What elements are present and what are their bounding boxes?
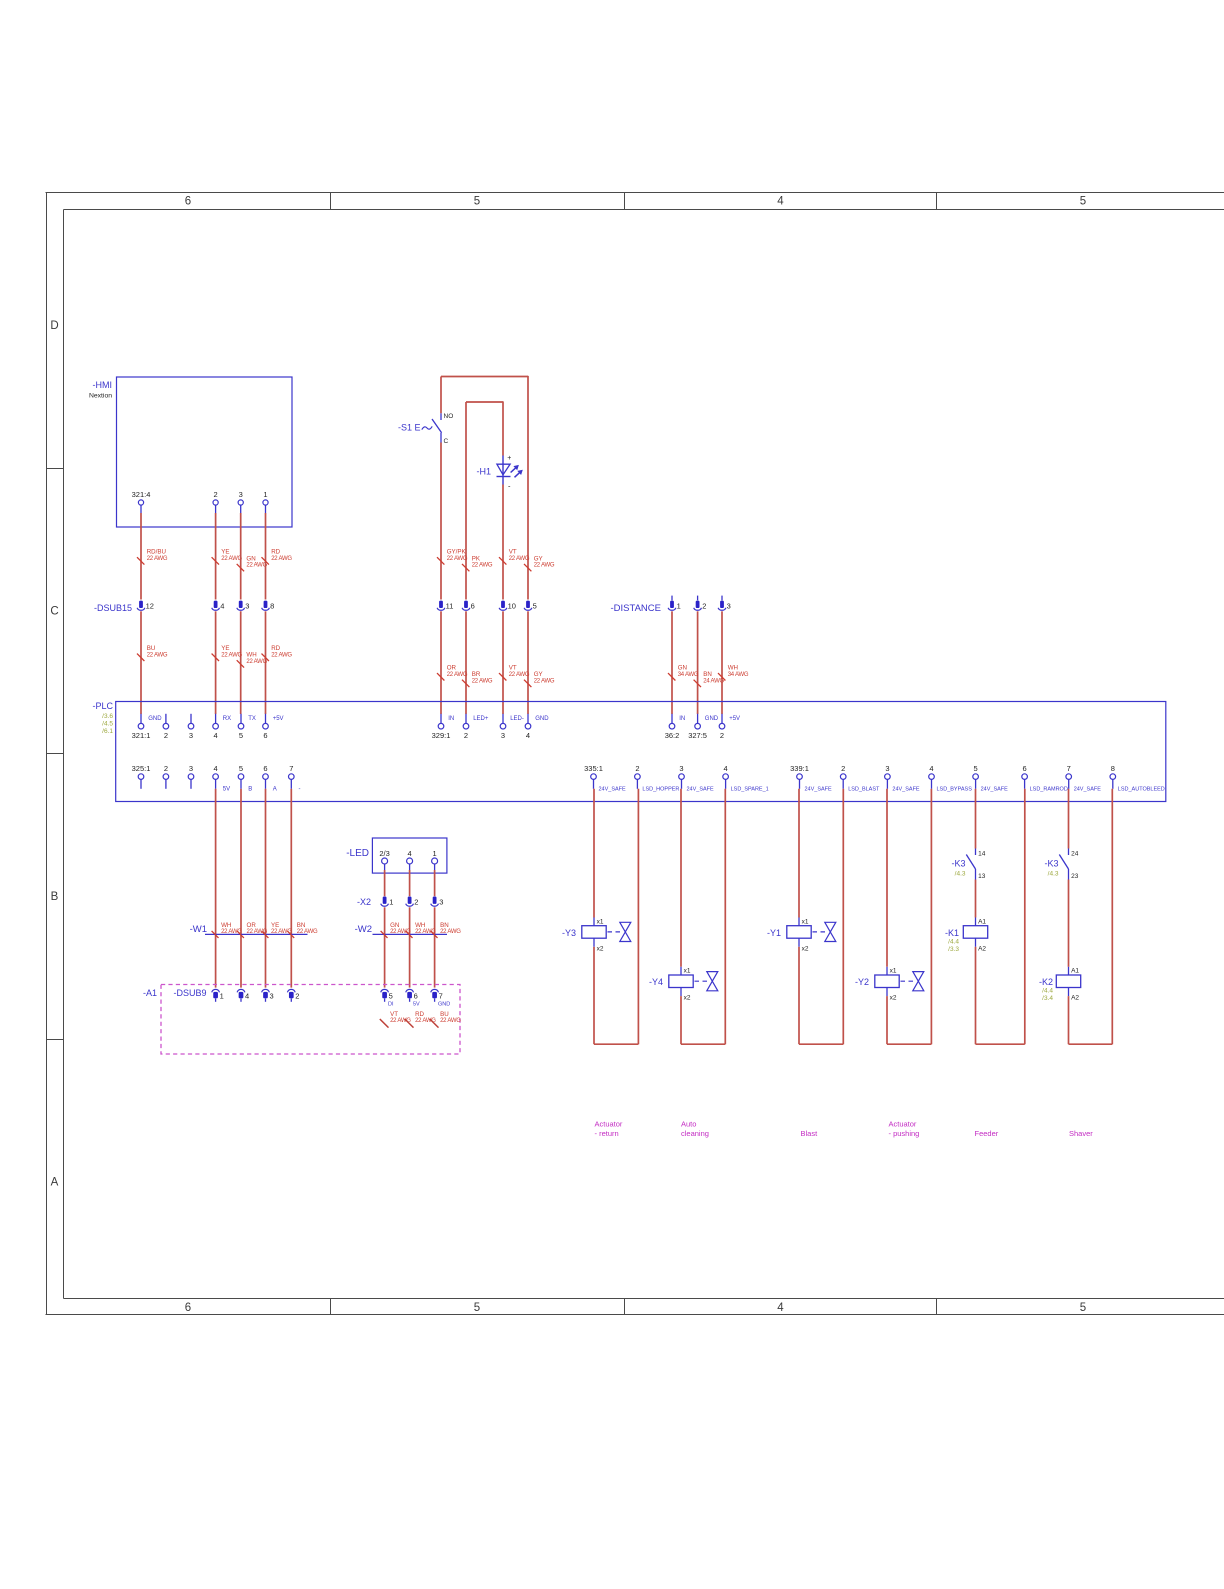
- svg-text:B: B: [51, 891, 59, 903]
- svg-text:10: 10: [508, 602, 516, 611]
- wire label GY/PK 22 AWG: [437, 557, 444, 564]
- solenoid coil -Y4: [669, 975, 693, 988]
- wire HMI to DSUB15 at x=240.7: [240, 513, 242, 600]
- wire K1 to loop bottom: [975, 947, 977, 1044]
- svg-text:4: 4: [408, 849, 412, 858]
- wire DSUB to PLC at x=697.6: [697, 611, 699, 714]
- svg-text:LSD_BLAST: LSD_BLAST: [848, 786, 880, 792]
- svg-text:GY/PK: GY/PK: [447, 549, 467, 556]
- wire-end label RD 22 AWG: [405, 1019, 414, 1028]
- svg-text:-PLC: -PLC: [92, 701, 113, 711]
- wire loop 5 bottom: [976, 1043, 1025, 1045]
- svg-text:6: 6: [414, 992, 418, 1001]
- PLC input terminal 327:5: [697, 714, 699, 724]
- DSUB15 pin 6: [464, 601, 468, 608]
- svg-text:Actuator: Actuator: [889, 1120, 917, 1129]
- svg-text:3: 3: [245, 602, 249, 611]
- drawing frame border (outer): [46, 192, 1224, 194]
- wire HMI to DSUB15 at x=141: [140, 513, 142, 600]
- svg-text:3: 3: [189, 731, 193, 740]
- svg-text:23: 23: [1071, 873, 1079, 880]
- svg-text:A2: A2: [1071, 995, 1079, 1002]
- svg-text:WH: WH: [221, 922, 231, 929]
- svg-text:-K1: -K1: [945, 928, 959, 938]
- svg-text:2: 2: [214, 490, 218, 499]
- svg-text:GND: GND: [705, 716, 719, 722]
- LED indicator -H1: [502, 456, 504, 485]
- svg-text:22 AWG: 22 AWG: [509, 672, 530, 678]
- wire H1 inner loop top: [465, 402, 467, 600]
- X2 pin 1: [383, 897, 387, 904]
- svg-text:WH: WH: [415, 922, 425, 929]
- svg-text:-X2: -X2: [357, 897, 371, 907]
- DISTANCE pin 3: [721, 596, 723, 601]
- wire DSUB to PLC at x=672: [671, 611, 673, 714]
- svg-text:22 AWG: 22 AWG: [440, 1018, 461, 1024]
- W2 wire label BN 22 AWG: [431, 931, 438, 938]
- wire DSUB to PLC at x=141: [140, 611, 142, 714]
- svg-text:A1: A1: [1071, 968, 1079, 975]
- wire K2 to loop bottom: [1068, 996, 1070, 1044]
- PLC input terminal 321:1: [140, 714, 142, 724]
- svg-text:24: 24: [1071, 851, 1079, 858]
- wire X2 to DSUB9 at x=384.6: [384, 907, 386, 987]
- svg-text:RX: RX: [223, 716, 231, 722]
- svg-text:5: 5: [239, 764, 243, 773]
- top ruler column dividers: [330, 193, 332, 210]
- svg-text:2: 2: [635, 764, 639, 773]
- relay coil -K2: [1056, 975, 1080, 988]
- svg-text:3: 3: [239, 490, 243, 499]
- svg-text:x1: x1: [684, 968, 691, 975]
- svg-text:Feeder: Feeder: [975, 1129, 999, 1138]
- W1 wire label YE 22 AWG: [262, 931, 269, 938]
- svg-text:-: -: [299, 786, 301, 792]
- svg-text:-W1: -W1: [190, 924, 207, 935]
- svg-text:7: 7: [289, 764, 293, 773]
- DSUB9 pin 6: [406, 989, 414, 992]
- svg-text:C: C: [444, 438, 449, 445]
- Y3 valve link: [608, 931, 621, 933]
- wire label OR 22 AWG: [437, 673, 444, 680]
- svg-text:OR: OR: [447, 665, 457, 672]
- wire PLC 335:1 down to Y3: [593, 789, 595, 918]
- svg-text:BN: BN: [703, 671, 712, 678]
- wire label WH 22 AWG: [237, 660, 244, 667]
- wire X2 to DSUB9 at x=434.6: [434, 907, 436, 987]
- W1 wire label OR 22 AWG: [237, 931, 244, 938]
- svg-text:NO: NO: [444, 413, 454, 420]
- svg-text:Actuator: Actuator: [595, 1120, 623, 1129]
- svg-text:BN: BN: [440, 922, 449, 929]
- svg-text:GY: GY: [534, 671, 543, 678]
- PLC input terminal 4: [527, 714, 529, 724]
- svg-text:22 AWG: 22 AWG: [472, 563, 493, 569]
- wire Y4 to loop bottom: [680, 996, 682, 1044]
- svg-text:/3.4: /3.4: [1042, 995, 1053, 1002]
- svg-text:-S1 E: -S1 E: [398, 423, 421, 433]
- wire PLC 2 down to Y2: [886, 789, 888, 967]
- svg-text:22 AWG: 22 AWG: [147, 652, 168, 658]
- svg-text:TX: TX: [248, 716, 256, 722]
- svg-text:2: 2: [414, 898, 418, 907]
- svg-text:329:1: 329:1: [432, 731, 451, 740]
- wire PLC to DSUB9 at x=241: [240, 789, 242, 988]
- svg-text:5: 5: [974, 764, 978, 773]
- svg-text:LSD_SPARE_1: LSD_SPARE_1: [731, 786, 769, 792]
- X2 pin 2: [408, 897, 412, 904]
- wire DSUB to PLC at x=722: [721, 611, 723, 714]
- Y2 valve link: [901, 980, 914, 982]
- svg-text:14: 14: [978, 851, 986, 858]
- svg-text:2: 2: [164, 764, 168, 773]
- svg-text:3: 3: [270, 992, 274, 1001]
- svg-text:4: 4: [214, 764, 218, 773]
- wire PLC to DSUB9 at x=215.6: [215, 789, 217, 988]
- wire loop 5 right side: [1024, 789, 1026, 1044]
- svg-text:A2: A2: [978, 945, 986, 952]
- svg-text:C: C: [50, 606, 58, 618]
- DSUB15 pin 4: [214, 601, 218, 608]
- wire label WH 34 AWG: [718, 673, 725, 680]
- Y4 valve link: [695, 980, 708, 982]
- DSUB9 pin 3: [262, 989, 270, 992]
- device box -A1 (dashed): [161, 985, 460, 1055]
- svg-text:1: 1: [263, 490, 267, 499]
- wire HMI to DSUB15 at x=215.6: [215, 513, 217, 600]
- svg-text:22 AWG: 22 AWG: [271, 652, 292, 658]
- relay coil -K1: [963, 926, 987, 939]
- valve symbol Y4: [707, 972, 718, 982]
- DSUB9 pin 1: [212, 989, 220, 992]
- svg-text:22 AWG: 22 AWG: [297, 929, 318, 935]
- svg-text:-K3: -K3: [951, 859, 965, 869]
- svg-text:VT: VT: [509, 549, 517, 556]
- svg-text:-DSUB15: -DSUB15: [94, 603, 132, 613]
- svg-text:6: 6: [185, 1302, 191, 1314]
- svg-text:22 AWG: 22 AWG: [147, 556, 168, 562]
- svg-text:24V_SAFE: 24V_SAFE: [599, 786, 627, 792]
- svg-text:335:1: 335:1: [584, 764, 603, 773]
- svg-text:OR: OR: [247, 922, 257, 929]
- svg-text:22 AWG: 22 AWG: [472, 678, 493, 684]
- svg-text:x2: x2: [890, 995, 897, 1002]
- svg-text:-HMI: -HMI: [93, 380, 113, 390]
- wire LED to X2 at x=409.6: [409, 870, 411, 896]
- svg-text:/4.4: /4.4: [948, 938, 959, 945]
- svg-text:-Y1: -Y1: [767, 928, 781, 938]
- svg-text:-A1: -A1: [143, 988, 157, 998]
- svg-text:GND: GND: [148, 716, 162, 722]
- wire DSUB to PLC at x=528: [527, 611, 529, 714]
- svg-text:24V_SAFE: 24V_SAFE: [805, 786, 833, 792]
- svg-text:YE: YE: [221, 549, 229, 556]
- svg-text:321:4: 321:4: [132, 490, 151, 499]
- svg-text:LSD_HOPPER: LSD_HOPPER: [642, 786, 679, 792]
- svg-text:8: 8: [1111, 764, 1115, 773]
- svg-text:6: 6: [1023, 764, 1027, 773]
- svg-text:4: 4: [929, 764, 933, 773]
- svg-text:7: 7: [439, 992, 443, 1001]
- wire DSUB to PLC at x=265.5: [265, 611, 267, 714]
- X2 pin 3: [433, 897, 437, 904]
- cable -W2: [373, 933, 448, 935]
- wire label YE 22 AWG: [212, 557, 219, 564]
- svg-text:22 AWG: 22 AWG: [221, 556, 242, 562]
- svg-text:5: 5: [1080, 1302, 1086, 1314]
- wire label GN 22 AWG: [237, 564, 244, 571]
- PLC input terminal 2: [465, 714, 467, 724]
- svg-text:4: 4: [526, 731, 530, 740]
- svg-text:36:2: 36:2: [665, 731, 680, 740]
- svg-text:/4.3: /4.3: [955, 870, 966, 877]
- svg-text:cleaning: cleaning: [681, 1129, 709, 1138]
- wire Y3 to loop bottom: [593, 947, 595, 1044]
- valve symbol Y1: [825, 922, 836, 932]
- svg-text:/6.1: /6.1: [102, 728, 113, 735]
- svg-text:12: 12: [146, 602, 154, 611]
- left ruler row dividers: [47, 468, 64, 470]
- svg-text:x2: x2: [802, 945, 809, 952]
- svg-text:339:1: 339:1: [790, 764, 809, 773]
- svg-text:22 AWG: 22 AWG: [447, 556, 468, 562]
- wire-end label BU 22 AWG: [430, 1019, 439, 1028]
- relay contact -K3 13/14: [975, 849, 977, 856]
- wire label GY 22 AWG: [524, 680, 531, 687]
- svg-text:1: 1: [433, 849, 437, 858]
- svg-text:-DISTANCE: -DISTANCE: [611, 603, 662, 614]
- svg-text:4: 4: [220, 602, 224, 611]
- svg-text:22 AWG: 22 AWG: [440, 929, 461, 935]
- Y1 valve link: [813, 931, 826, 933]
- svg-text:3: 3: [189, 764, 193, 773]
- svg-text:YE: YE: [271, 922, 279, 929]
- wire loop 2 bottom: [681, 1043, 725, 1045]
- svg-text:2: 2: [720, 731, 724, 740]
- DISTANCE pin 2: [697, 596, 699, 601]
- PLC input terminal 5: [240, 714, 242, 724]
- DSUB15 pin 12: [139, 601, 143, 608]
- DSUB15 pin 10: [501, 601, 505, 608]
- svg-text:24V_SAFE: 24V_SAFE: [687, 786, 715, 792]
- svg-text:/3.6: /3.6: [102, 713, 113, 720]
- PLC input terminal 3: [190, 714, 192, 724]
- DSUB15 pin 8: [264, 601, 268, 608]
- svg-text:6: 6: [263, 764, 267, 773]
- svg-text:3: 3: [679, 764, 683, 773]
- wire-end label VT 22 AWG: [380, 1019, 389, 1028]
- svg-text:1: 1: [677, 602, 681, 611]
- svg-text:VT: VT: [509, 665, 517, 672]
- svg-text:BU: BU: [440, 1011, 449, 1018]
- DSUB15 pin 11: [439, 601, 443, 608]
- svg-text:- pushing: - pushing: [889, 1129, 920, 1138]
- svg-text:IN: IN: [679, 716, 685, 722]
- svg-text:5: 5: [533, 602, 537, 611]
- svg-text:3: 3: [885, 764, 889, 773]
- svg-text:-K2: -K2: [1039, 977, 1053, 987]
- svg-text:-K3: -K3: [1044, 859, 1058, 869]
- svg-text:22 AWG: 22 AWG: [246, 563, 267, 569]
- svg-text:/4.3: /4.3: [1048, 870, 1059, 877]
- wire loop 1 bottom: [594, 1043, 638, 1045]
- wire label BU 22 AWG: [137, 654, 144, 661]
- svg-text:DI: DI: [388, 1002, 394, 1008]
- svg-text:13: 13: [978, 873, 986, 880]
- W1 wire label BN 22 AWG: [287, 931, 294, 938]
- svg-text:4: 4: [245, 992, 249, 1001]
- svg-text:RD/BU: RD/BU: [147, 549, 166, 556]
- svg-text:D: D: [50, 320, 58, 332]
- svg-text:Blast: Blast: [801, 1129, 819, 1138]
- svg-text:6: 6: [185, 196, 191, 208]
- wire label GN 34 AWG: [668, 673, 675, 680]
- svg-text:x1: x1: [890, 968, 897, 975]
- svg-text:LSD_BYPASS: LSD_BYPASS: [937, 786, 973, 792]
- svg-text:5: 5: [389, 992, 393, 1001]
- svg-text:BN: BN: [297, 922, 306, 929]
- svg-text:11: 11: [446, 602, 454, 611]
- svg-text:-W2: -W2: [355, 924, 372, 935]
- svg-text:PK: PK: [472, 555, 481, 562]
- wire loop 2 right side: [724, 789, 726, 1044]
- svg-text:RD: RD: [271, 549, 280, 556]
- switch -S1: [440, 413, 442, 420]
- svg-text:6: 6: [263, 731, 267, 740]
- PLC input terminal 36:2: [671, 714, 673, 724]
- svg-text:GN: GN: [678, 665, 687, 672]
- wire label RD 22 AWG: [262, 557, 269, 564]
- wire PLC 3 down to Y4: [680, 789, 682, 967]
- valve symbol Y2: [913, 972, 924, 982]
- wire label RD 22 AWG: [262, 654, 269, 661]
- svg-text:-H1: -H1: [476, 467, 491, 477]
- svg-text:5V: 5V: [223, 786, 230, 792]
- svg-text:5: 5: [239, 731, 243, 740]
- svg-text:22 AWG: 22 AWG: [221, 652, 242, 658]
- svg-text:-DSUB9: -DSUB9: [174, 988, 207, 998]
- cable -W1: [205, 933, 308, 935]
- svg-text:A: A: [273, 786, 277, 792]
- wire DSUB to PLC at x=240.7: [240, 611, 242, 714]
- relay contact -K3 23/24: [1068, 849, 1070, 856]
- svg-text:GN: GN: [390, 922, 399, 929]
- svg-text:4: 4: [214, 731, 218, 740]
- W2 wire label GN 22 AWG: [381, 931, 388, 938]
- svg-text:2: 2: [464, 731, 468, 740]
- svg-text:x2: x2: [684, 995, 691, 1002]
- svg-text:1: 1: [389, 898, 393, 907]
- bottom ruler column dividers: [330, 1299, 332, 1315]
- wire loop 6 right side: [1111, 789, 1113, 1044]
- DISTANCE pin 1: [671, 596, 673, 601]
- solenoid coil -Y3: [582, 926, 606, 939]
- svg-text:GND: GND: [438, 1002, 450, 1008]
- wire DSUB to PLC at x=215.6: [215, 611, 217, 714]
- svg-text:22 AWG: 22 AWG: [534, 678, 555, 684]
- wire PLC to DSUB9 at x=265.5: [265, 789, 267, 988]
- PLC input terminal 6: [265, 714, 267, 724]
- PLC input terminal 4: [215, 714, 217, 724]
- svg-text:22 AWG: 22 AWG: [534, 563, 555, 569]
- svg-text:24V_SAFE: 24V_SAFE: [981, 786, 1009, 792]
- wire label VT 22 AWG: [499, 673, 506, 680]
- svg-text:34 AWG: 34 AWG: [728, 672, 749, 678]
- wire label VT 22 AWG: [499, 557, 506, 564]
- svg-text:Nextion: Nextion: [89, 393, 112, 400]
- wire loop 4 bottom: [887, 1043, 931, 1045]
- svg-text:1: 1: [220, 992, 224, 1001]
- svg-text:5V: 5V: [413, 1002, 420, 1008]
- svg-text:4: 4: [724, 764, 728, 773]
- svg-text:BR: BR: [472, 671, 481, 678]
- W1 wire label WH 22 AWG: [212, 931, 219, 938]
- svg-text:LED-: LED-: [510, 716, 524, 722]
- wire K3 to K1: [975, 880, 977, 918]
- svg-text:2: 2: [841, 764, 845, 773]
- svg-text:x1: x1: [597, 918, 604, 925]
- svg-text:5: 5: [474, 196, 480, 208]
- svg-text:x1: x1: [802, 918, 809, 925]
- svg-text:3: 3: [439, 898, 443, 907]
- svg-text:-Y3: -Y3: [562, 928, 576, 938]
- svg-text:-Y2: -Y2: [855, 977, 869, 987]
- svg-text:GN: GN: [246, 555, 255, 562]
- LED connector box -LED: [372, 838, 447, 873]
- svg-text:/4.5: /4.5: [102, 720, 113, 727]
- svg-text:22 AWG: 22 AWG: [509, 556, 530, 562]
- svg-text:LSD_RAMROD: LSD_RAMROD: [1030, 786, 1068, 792]
- wire LED to X2 at x=434.6: [434, 870, 436, 896]
- DSUB9 pin 7: [431, 989, 439, 992]
- wire PLC 7 down to K3 contact 2: [1068, 789, 1070, 849]
- PLC input terminal 3: [502, 714, 504, 724]
- svg-text:7: 7: [1067, 764, 1071, 773]
- DSUB9 pin 2: [287, 989, 295, 992]
- svg-text:GY: GY: [534, 555, 543, 562]
- solenoid coil -Y2: [875, 975, 899, 988]
- svg-text:BU: BU: [147, 645, 156, 652]
- svg-text:22 AWG: 22 AWG: [271, 556, 292, 562]
- PLC input terminal 2: [721, 714, 723, 724]
- drawing frame border (inner): [64, 209, 1224, 211]
- svg-text:5: 5: [1080, 196, 1086, 208]
- wire loop 3 bottom: [799, 1043, 843, 1045]
- svg-text:8: 8: [270, 602, 274, 611]
- wire label PK 22 AWG: [462, 564, 469, 571]
- svg-text:24 AWG: 24 AWG: [703, 678, 724, 684]
- svg-text:A: A: [51, 1177, 59, 1189]
- PLC module box -PLC: [116, 702, 1166, 802]
- svg-text:VT: VT: [390, 1011, 398, 1018]
- svg-text:-Y4: -Y4: [649, 977, 663, 987]
- wire DSUB to PLC at x=466: [465, 611, 467, 714]
- svg-text:LSD_AUTOBLEED: LSD_AUTOBLEED: [1118, 786, 1165, 792]
- DSUB9 pin 5: [381, 989, 389, 992]
- DSUB9 pin 4: [237, 989, 245, 992]
- svg-text:RD: RD: [415, 1011, 424, 1018]
- svg-text:4: 4: [777, 1302, 784, 1314]
- svg-text:22 AWG: 22 AWG: [447, 672, 468, 678]
- svg-text:- return: - return: [595, 1129, 619, 1138]
- svg-text:3: 3: [727, 602, 731, 611]
- svg-text:B: B: [248, 786, 252, 792]
- svg-text:24V_SAFE: 24V_SAFE: [1074, 786, 1102, 792]
- svg-text:WH: WH: [728, 665, 738, 672]
- svg-text:RD: RD: [271, 645, 280, 652]
- wire Y1 to loop bottom: [798, 947, 800, 1044]
- svg-text:IN: IN: [448, 716, 454, 722]
